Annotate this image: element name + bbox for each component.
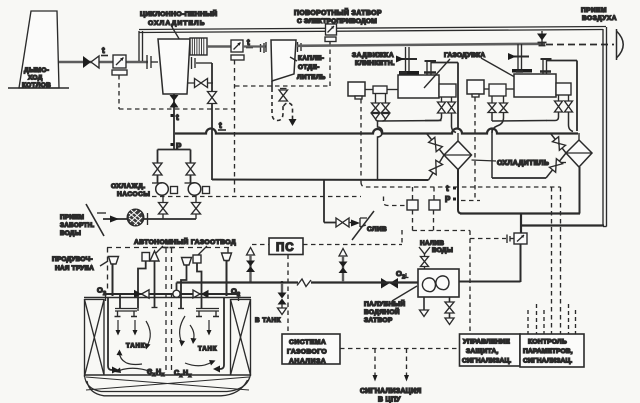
o2 dosing line on deck: [104, 293, 240, 295]
svg-text:НАЛИВ: НАЛИВ: [420, 240, 444, 247]
cooling pump 1: [152, 183, 178, 219]
valve on cooler1 upper diagonal: [429, 137, 443, 151]
svg-text:ВОДЯНОЙ: ВОДЯНОЙ: [364, 307, 400, 316]
air intake bellmouth: [617, 29, 624, 60]
node CxHx tank2: [174, 370, 192, 379]
hull right side trunk with X brace: [231, 299, 251, 376]
cooler1 outlet drop pipe: [458, 170, 462, 214]
node O2 left: [97, 286, 106, 298]
rotary valve actuator on top pipe: [325, 24, 337, 42]
label: cyclone-foam cooler: [140, 9, 217, 47]
svg-text:ЛИТЕЛЬ: ЛИТЕЛЬ: [297, 74, 326, 81]
emergency vent stack with valve: [246, 248, 255, 283]
svg-text:t: t: [102, 46, 105, 55]
inert gas distribution line y282: [177, 281, 419, 283]
signal wires below boxes A,B: [413, 210, 507, 334]
air suction line (dashed): [546, 44, 614, 46]
label: autonomous gas vent: [134, 237, 236, 255]
water fill funnel: [419, 247, 430, 269]
svg-text:СИГНАЛИЗАЦ.: СИГНАЛИЗАЦ.: [462, 358, 511, 365]
hull bottom shell: [85, 374, 251, 396]
svg-text:t: t: [446, 184, 449, 193]
sea water suction line: [103, 218, 196, 220]
vent head: box type 2: [193, 255, 202, 308]
double-bottom diagonals: [86, 377, 249, 390]
label: signalling to CPU: [360, 388, 422, 403]
blower 1 drain valves: [425, 97, 456, 133]
svg-text:КОТЛОВ: КОТЛОВ: [22, 82, 51, 89]
svg-text:ОТДЕ-: ОТДЕ-: [298, 64, 320, 71]
signal wire pair to control console: [461, 187, 561, 334]
pipe: flue gas to cooler: [59, 61, 148, 64]
flange after strainer: [147, 213, 149, 225]
signal box A: [407, 200, 418, 210]
blower 2 coupling: [484, 84, 514, 96]
vent head: funnel 3: [222, 253, 232, 296]
top recirculation pipe: [139, 27, 606, 33]
blower 2 bearing box: [556, 83, 571, 95]
svg-text:ПРОДУВОЧ-: ПРОДУВОЧ-: [52, 256, 93, 263]
svg-text:ВОДЫ: ВОДЫ: [432, 247, 453, 254]
instrument: gas transmitter 2: [231, 40, 244, 60]
svg-text:КЛИНКЕТН.: КЛИНКЕТН.: [355, 60, 395, 67]
cooler left drain pipe: [173, 94, 175, 149]
gas blower 1 body: [398, 73, 439, 99]
svg-text:СИГНАЛИЗАЦ.: СИГНАЛИЗАЦ.: [523, 358, 572, 365]
bulkhead vent stub ticks: [164, 247, 175, 249]
svg-text:ТАНК: ТАНК: [198, 346, 217, 353]
valve: pump 1 suction: [159, 203, 168, 215]
signal device PS box: [269, 238, 303, 255]
cooler inlet flange: [147, 55, 158, 69]
gas cooler 1 (diamond): [427, 133, 472, 180]
flange pair before droplet separator: [243, 43, 266, 53]
deck seal feed pipe: [520, 244, 522, 282]
svg-text:ВОЗДУХА: ВОЗДУХА: [582, 15, 617, 22]
drain line to sliv: [324, 180, 336, 223]
label: purge pipe: [52, 256, 108, 272]
valve on cooler right drain: [208, 92, 217, 104]
svg-text:ЦИКЛОННО-ПЕННЫЙ: ЦИКЛОННО-ПЕННЫЙ: [140, 9, 217, 18]
drain pipe right of cooler: [211, 63, 213, 180]
node CxHx tank1: [147, 369, 165, 378]
cooler heat-exchange coil (hatched): [190, 38, 207, 55]
valve on cooler left drain (filled): [170, 95, 179, 108]
vent head: funnel 2: [178, 258, 192, 309]
valve on cooler2 upper diagonal: [552, 137, 565, 151]
vent assembly dashed enclosure: [107, 248, 230, 292]
sea chest symbol: [86, 204, 106, 236]
strainer (crosshatched): [127, 209, 144, 226]
vent head: purge pipe funnel: [109, 257, 119, 297]
riser from regulator to gas line: [176, 283, 178, 291]
svg-text:ВОДЫ: ВОДЫ: [60, 230, 81, 237]
control box: parameter monitoring: [520, 334, 584, 367]
svg-text:СЛИВ: СЛИВ: [367, 226, 387, 233]
signal wire: rotary valve down: [235, 42, 330, 87]
svg-text:В ЦПУ: В ЦПУ: [378, 397, 401, 403]
gas blower 2 body: [514, 72, 556, 98]
svg-text:ПАРАМЕТРОВ,: ПАРАМЕТРОВ,: [523, 348, 573, 355]
signal wire: transmitter down/right: [119, 75, 234, 109]
cooling pump 2: [185, 183, 210, 219]
svg-text:СИСТЕМА: СИСТЕМА: [289, 339, 326, 346]
blower 1 discharge riser: [425, 61, 459, 129]
valve: pump 2 discharge: [186, 163, 195, 183]
blower 1 coupling: [365, 86, 398, 94]
tank deck line: [84, 297, 251, 299]
svg-text:ПРИЕМ: ПРИЕМ: [60, 214, 84, 221]
svg-text:t: t: [219, 121, 222, 130]
svg-text:ПАЛУБНЫЙ: ПАЛУБНЫЙ: [364, 299, 405, 308]
svg-text:СИГНАЛИЗАЦИЯ: СИГНАЛИЗАЦИЯ: [360, 388, 422, 395]
valve on cooler2 lower diagonal: [549, 159, 562, 173]
valve: pump 1 discharge: [153, 163, 162, 183]
hull left side trunk with X brace: [85, 299, 105, 377]
gas supply stack x343: [339, 249, 348, 283]
instrument on deck seal feed: [507, 233, 527, 244]
sensor P below cooler1: [445, 195, 456, 204]
cyclone-foam cooler body: [158, 39, 190, 94]
svg-text:ЗАДВИЖКА: ЗАДВИЖКА: [352, 52, 394, 59]
centre bulkhead (dashed): [166, 248, 172, 374]
deck seal left drain: [420, 297, 429, 317]
signal drop arrow 2 to CPU: [404, 349, 409, 382]
svg-text:x: x: [162, 372, 165, 378]
svg-text:ЗАТВОР: ЗАТВОР: [364, 317, 393, 324]
label: gas cooler: [472, 160, 567, 167]
gas drain header y180: [212, 179, 429, 182]
label: deck water seal: [364, 286, 417, 324]
svg-text:ОХЛАДИТЕЛЬ: ОХЛАДИТЕЛЬ: [497, 160, 549, 167]
sensor t below cooler1: [446, 184, 456, 193]
gate valve on blower1 suction: [396, 47, 419, 75]
svg-text:ХОД: ХОД: [28, 75, 43, 82]
signal drop arrow 1 to CPU: [373, 349, 378, 382]
flow arrow on suction line: [110, 216, 119, 223]
signal bus mid (y187): [361, 182, 561, 187]
blower 2 drain valves: [546, 95, 573, 132]
svg-text:P: P: [445, 195, 451, 204]
svg-text:АВТОНОМНЫЙ ГАЗООТВОД: АВТОНОМНЫЙ ГАЗООТВОД: [134, 237, 236, 246]
tank inner bottom: [85, 374, 251, 376]
valve: water fill: [421, 257, 429, 267]
short signal drops above control box: [528, 304, 576, 334]
label: gas blower: [424, 52, 520, 88]
sensor t on left drain: [171, 113, 180, 122]
svg-text:ПС: ПС: [276, 242, 295, 254]
tank1 fill pipe (long, left): [108, 297, 119, 374]
label: air intake: [581, 7, 617, 22]
right frame duct (double): [603, 27, 607, 227]
svg-text:ЗАБОРТН.: ЗАБОРТН.: [60, 222, 95, 229]
signal box B: [429, 200, 440, 210]
droplet separator body (каплеотделитель): [266, 40, 301, 81]
valve on cooler1 lower diagonal: [429, 160, 442, 174]
svg-text:ПРИЕМ: ПРИЕМ: [581, 7, 607, 14]
blower 2 discharge riser: [541, 59, 578, 131]
deck seal right drain: [445, 297, 454, 325]
tank1 spray manifold: [115, 308, 139, 317]
valve: pump 2 suction: [192, 203, 201, 215]
signal wire: motor1 down: [360, 99, 362, 182]
label: cooling pumps: [111, 183, 150, 198]
svg-text:t: t: [176, 113, 179, 122]
svg-text:КАПЛЕ-: КАПЛЕ-: [298, 55, 324, 62]
tank2 fill pipe (long, right): [213, 297, 224, 373]
svg-text:НАЯ ТРУБА: НАЯ ТРУБА: [55, 265, 94, 272]
separator drain valve and loop seal: [272, 81, 297, 126]
coupling drain header to blower1: [376, 118, 442, 180]
blower 2 motor: [467, 80, 484, 97]
second pipe: separator to blowers: [297, 44, 545, 46]
svg-text:ГАЗОВОГО: ГАЗОВОГО: [287, 349, 327, 356]
label: water fill: [420, 240, 453, 254]
coupling 2 drain header: [492, 113, 547, 179]
label: droplet separator: [290, 55, 326, 81]
signal bus y348 to control boxes: [340, 348, 459, 350]
valve: flue gas shutoff: [83, 56, 99, 68]
signal wires from PS: [252, 230, 402, 334]
control box: management/protection: [460, 334, 521, 366]
instrument: flue gas transmitter: [112, 55, 127, 75]
svg-text:ОХЛАЖД.: ОХЛАЖД.: [111, 183, 146, 190]
svg-text:ТАНК: ТАНК: [126, 343, 145, 350]
blower 1 motor: [348, 82, 365, 99]
svg-text:H: H: [156, 369, 161, 376]
to-tank branch with valve: [278, 283, 287, 315]
signal branch to drain box A: [384, 187, 413, 206]
drain of cooler: side valve: [188, 57, 213, 88]
valve: o2 line left (arrow type): [134, 290, 149, 298]
signal bus lower-left horizontal: [152, 196, 361, 198]
water line to cooler 2: [492, 177, 546, 179]
vent head: cone: [150, 251, 159, 308]
sensor P on left drain: [171, 142, 183, 151]
label: sea water intake: [60, 214, 95, 237]
svg-text:АНАЛИЗА: АНАЛИЗА: [289, 358, 326, 365]
regulator node (circle) on o2 line: [173, 290, 180, 297]
cooler2 outlet drop pipe: [579, 167, 581, 214]
svg-text:В ТАНК: В ТАНК: [255, 317, 281, 324]
svg-text:УПРАВЛЕНИЕ: УПРАВЛЕНИЕ: [463, 339, 510, 346]
node O2 at deck seal: [396, 269, 409, 281]
signal wire: transmitter2 trunk down: [234, 60, 236, 197]
signal branch to box B: [433, 187, 435, 200]
tank2 spray manifold: [196, 309, 219, 317]
svg-text:ГАЗОДУВКА: ГАЗОДУВКА: [444, 52, 485, 59]
svg-text:ЗАЩИТА,: ЗАЩИТА,: [466, 348, 499, 355]
coupling drain valves: [372, 94, 390, 120]
label: gate valve klinket: [352, 52, 395, 67]
deck water seal box: [418, 269, 459, 297]
o2 line end stubs into deck: [106, 294, 239, 301]
pipe: coil to transmitter: [207, 45, 231, 47]
vent head: box type 1: [138, 253, 150, 309]
svg-text:H: H: [183, 370, 188, 377]
sliv funnel symbol: [351, 211, 374, 240]
blower 1 bearing box: [439, 84, 456, 97]
air intake valve on top pipe: [537, 31, 547, 46]
node O2 right: [231, 287, 240, 299]
svg-text:ДЫМО-: ДЫМО-: [24, 67, 49, 74]
pipe break symbol: [281, 278, 312, 287]
pump suction header tee: [158, 149, 191, 164]
svg-text:ПОВОРОТНЫЙ ЗАТВОР: ПОВОРОТНЫЙ ЗАТВОР: [294, 8, 382, 17]
coupling 2 drain valves: [488, 96, 508, 113]
gas header y225 to frame: [521, 214, 604, 234]
sensor t after coil: [246, 38, 253, 48]
svg-text:x: x: [189, 373, 192, 379]
signal wire: motor2 down: [474, 97, 476, 200]
deck seal outlet pipe: [459, 281, 521, 283]
boiler flue stack (дымоход котлов): [8, 11, 69, 89]
gas cooler 2 (diamond): [546, 133, 592, 178]
svg-text:C: C: [147, 369, 152, 376]
svg-text:НАСОСЫ: НАСОСЫ: [117, 191, 150, 198]
valve: sliv drain: [336, 218, 353, 227]
recirculation duct riser: [139, 31, 143, 61]
valve: deck seal inlet (o2 line): [381, 278, 398, 289]
gate valve on blower2 suction: [508, 44, 532, 73]
main cooling water line: [175, 129, 578, 134]
sensor t at main line hop: [218, 121, 226, 130]
label: rotary valve with electric drive: [294, 8, 382, 25]
gas analysis system box: [282, 334, 340, 365]
tank1 circulation arrows: [115, 320, 153, 373]
tank2 circulation arrows: [179, 316, 216, 366]
valve: o2 line right (arrow type): [193, 290, 209, 298]
svg-text:КОНТРОЛЬ: КОНТРОЛЬ: [528, 339, 567, 346]
tank1 manifold riser from o2 line: [119, 294, 121, 309]
treated gas header y213: [460, 212, 580, 214]
sensor t on flue pipe: [101, 46, 108, 56]
svg-text:ОХЛАДИТЕЛЬ: ОХЛАДИТЕЛЬ: [148, 20, 206, 27]
svg-text:C: C: [174, 370, 179, 377]
